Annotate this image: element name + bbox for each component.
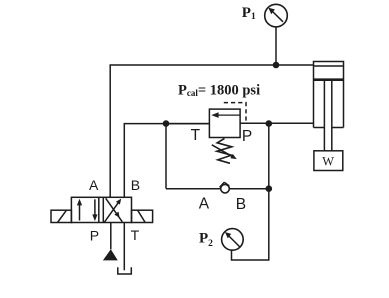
DCV right envelope crossed arrows xyxy=(104,198,122,222)
svg-text:B: B xyxy=(236,196,246,213)
wire: DCV port B up to counterbalance T-line xyxy=(124,124,209,198)
wire: branch down from T-line junction to check-valve line xyxy=(165,124,167,189)
DCV left envelope straight arrows xyxy=(77,199,98,221)
DCV valve body (two envelopes) xyxy=(71,197,131,222)
svg-text:P1: P1 xyxy=(242,5,256,22)
node: junction on top line at P1 xyxy=(273,62,280,69)
wire: top pressure line from DCV up and across to cylinder cap xyxy=(110,65,313,197)
counterbalance valve U1 body xyxy=(209,109,240,137)
wire: DCV T port to tank xyxy=(123,223,125,271)
wire: check valve line right segment xyxy=(229,188,268,190)
node: junction at right end of check valve line xyxy=(266,185,273,192)
wire: counterbalance P-side line to cylinder rod-end port xyxy=(240,122,313,124)
svg-text:B: B xyxy=(131,177,140,193)
svg-text:Pcal= 1800 psi: Pcal= 1800 psi xyxy=(178,82,260,98)
node: junction on T-line xyxy=(163,120,170,127)
cylinder piston xyxy=(314,78,343,81)
tank symbol xyxy=(118,267,132,274)
svg-text:P: P xyxy=(242,128,252,145)
counterbalance valve flow arrow xyxy=(211,112,240,118)
counterbalance valve spring xyxy=(217,139,232,164)
counterbalance valve adjustment arrow xyxy=(212,145,237,159)
wire: gauge P1 stem xyxy=(275,27,277,65)
wire: counterbalance T-side line segment xyxy=(166,123,209,125)
counterbalance valve pilot line (dashed) xyxy=(224,103,246,123)
svg-text:P2: P2 xyxy=(199,230,213,249)
cylinder barrel xyxy=(314,62,344,128)
wire: check valve line left segment xyxy=(166,188,221,190)
pump / pressure source triangle xyxy=(103,249,118,260)
weight W box xyxy=(314,151,343,171)
DCV right solenoid actuator xyxy=(132,210,153,222)
DCV left solenoid actuator xyxy=(51,210,71,222)
svg-text:A: A xyxy=(89,177,99,193)
wire: branch to gauge P2 xyxy=(232,189,269,260)
cylinder rod xyxy=(324,81,331,151)
svg-text:T: T xyxy=(191,127,201,144)
wire: DCV P port to pump xyxy=(110,223,112,250)
svg-text:T: T xyxy=(131,227,140,243)
svg-text:W: W xyxy=(322,154,334,168)
wire: branch down from P-side junction to check-valve line xyxy=(268,124,270,189)
pressure gauge P1 xyxy=(265,4,288,27)
pressure gauge P2 xyxy=(222,229,244,251)
check valve xyxy=(220,182,230,193)
svg-text:A: A xyxy=(199,196,210,213)
svg-text:P: P xyxy=(90,228,99,244)
node: junction on P-side line xyxy=(266,120,273,127)
